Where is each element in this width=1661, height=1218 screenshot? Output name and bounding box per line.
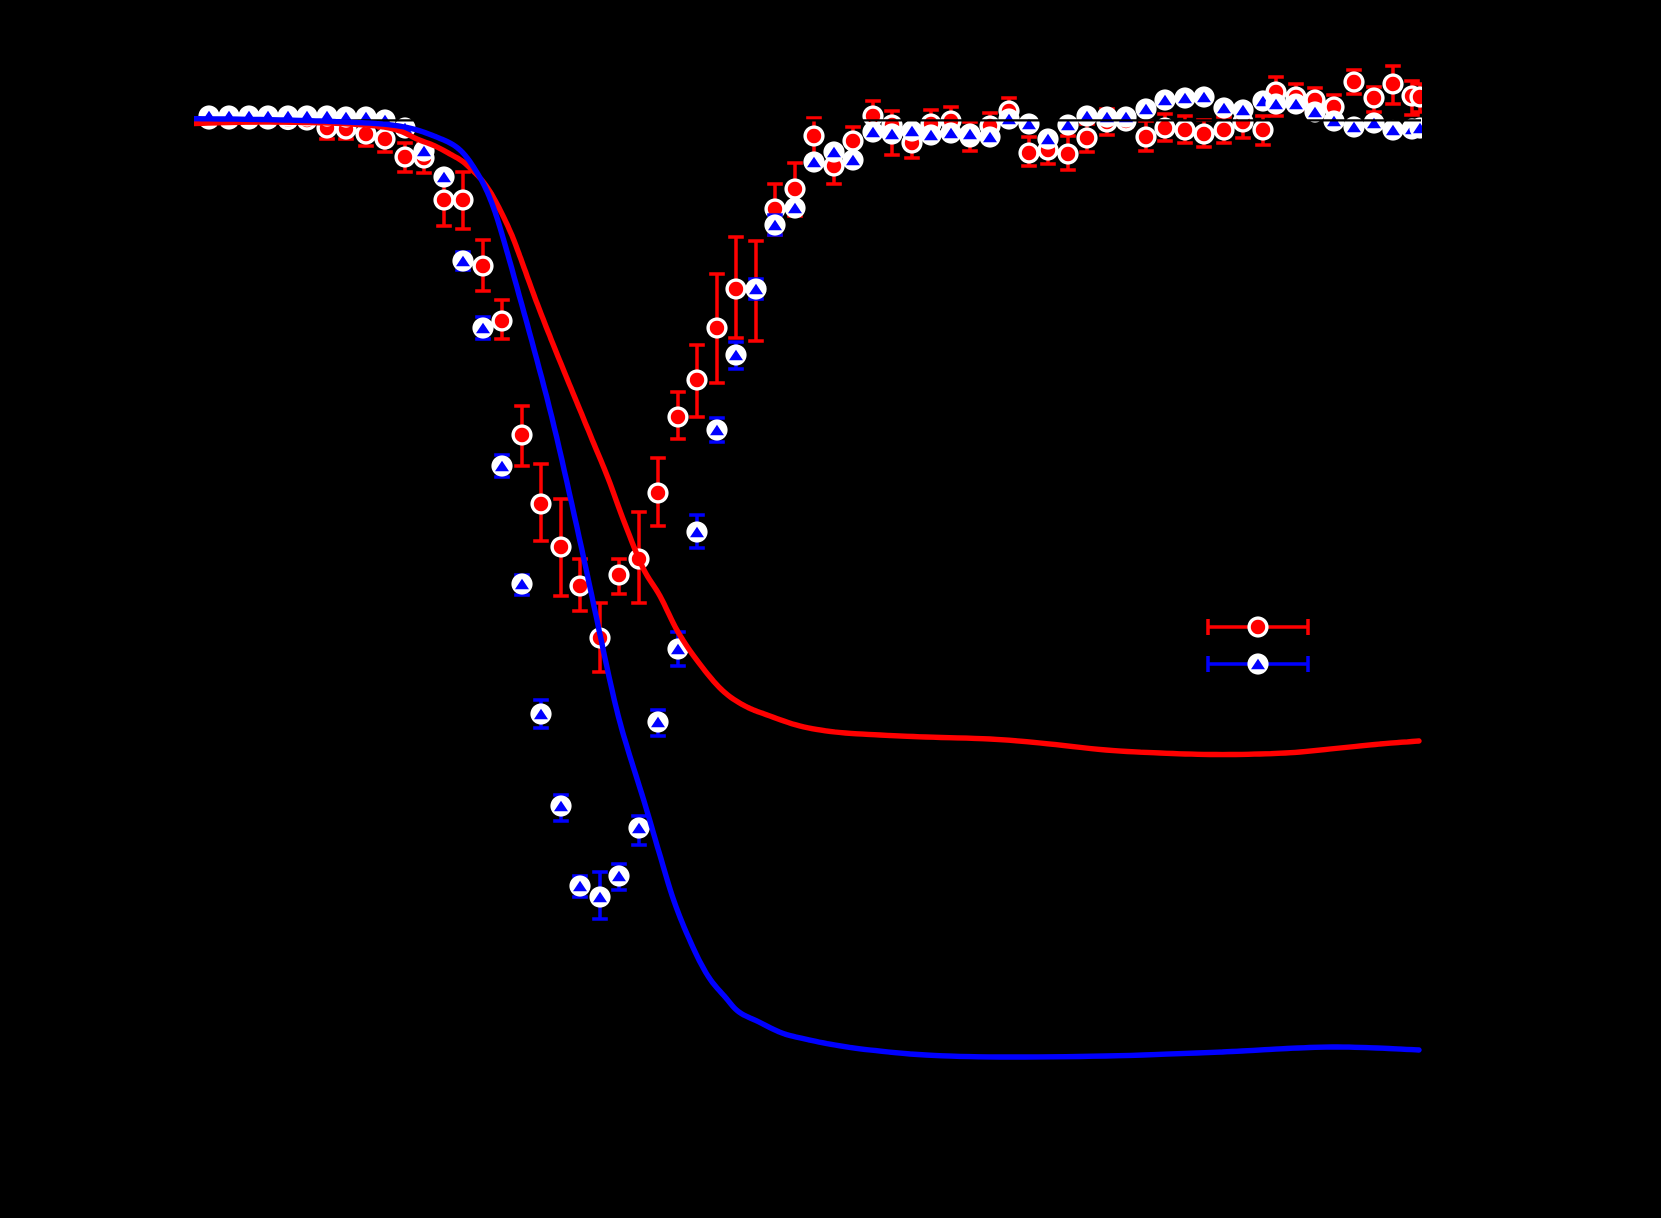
red data series error bars xyxy=(201,66,1428,672)
red data series markers xyxy=(198,71,1430,648)
blue data series markers xyxy=(198,86,1430,907)
horizontal reference line y=1 xyxy=(194,119,1421,121)
blue model curve xyxy=(194,119,1419,1057)
blue data series error bars xyxy=(201,92,1428,919)
red model curve xyxy=(194,122,1419,755)
legend blue entry xyxy=(1208,656,1308,672)
legend red entry xyxy=(1208,619,1308,635)
